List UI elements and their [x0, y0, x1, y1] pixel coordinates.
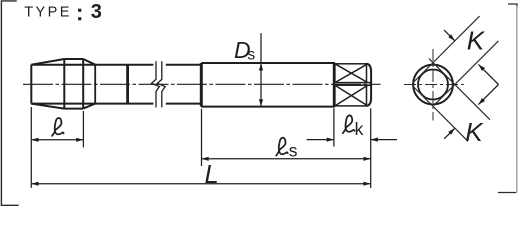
svg-text:K: K: [467, 25, 486, 55]
svg-text:TYPE: TYPE: [24, 5, 71, 21]
svg-text:s: s: [247, 47, 255, 64]
svg-text:L: L: [205, 161, 219, 189]
svg-text:3: 3: [91, 1, 102, 23]
svg-text:K: K: [465, 117, 484, 147]
svg-text:s: s: [289, 140, 298, 160]
svg-text:k: k: [355, 119, 364, 139]
